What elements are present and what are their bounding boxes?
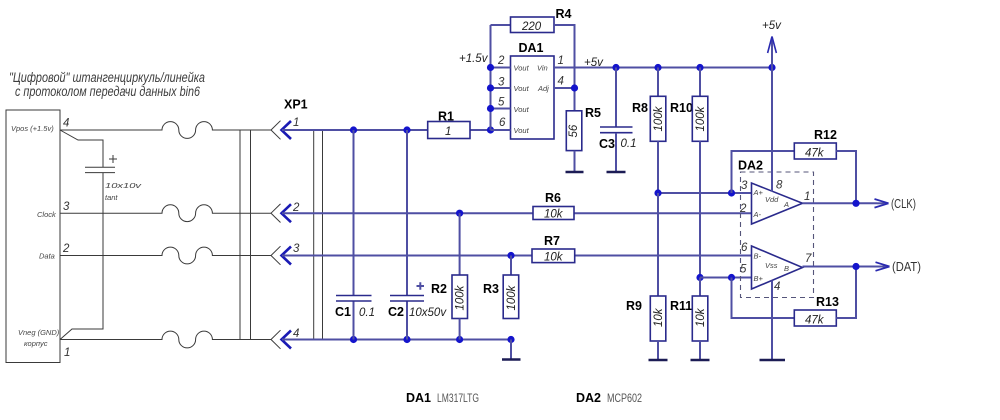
svg-text:100k: 100k (653, 105, 665, 131)
svg-text:R13: R13 (816, 295, 839, 309)
svg-text:3: 3 (293, 243, 300, 255)
svg-text:+1.5v: +1.5v (459, 53, 489, 65)
XP1 socket chevron pin 1 (271, 121, 281, 140)
wire R4 left connection (491, 24, 511, 26)
svg-text:R4: R4 (556, 7, 572, 21)
resistor R12 body (794, 143, 836, 159)
svg-text:6: 6 (499, 117, 506, 129)
svg-text:4: 4 (63, 118, 69, 130)
svg-text:0.1: 0.1 (621, 138, 637, 150)
wire DA1 left rail pins 2 3 5 6 (491, 25, 511, 130)
svg-text:4: 4 (558, 76, 564, 88)
wire R8 bottom to divider node (657, 141, 659, 193)
svg-text:4: 4 (293, 328, 299, 340)
node +5v C3 (612, 64, 619, 71)
svg-text:220: 220 (521, 21, 542, 33)
svg-text:Vneg (GND): Vneg (GND) (18, 328, 60, 337)
node row1 DA1 rail tap (487, 126, 494, 133)
svg-text:10k: 10k (695, 307, 707, 327)
svg-text:1: 1 (804, 191, 810, 203)
wire R8R9 vertical through (657, 193, 659, 296)
wire R10 bottom to divider node (699, 141, 701, 277)
svg-text:Vout: Vout (514, 126, 530, 135)
svg-text:+5v: +5v (762, 20, 782, 32)
arrow output CLK (877, 202, 889, 204)
DA2 dashed box (741, 172, 814, 298)
svg-text:(DAT): (DAT) (892, 260, 921, 274)
svg-text:0.1: 0.1 (359, 307, 375, 319)
resistor R8 body (650, 96, 666, 141)
svg-text:LM317LTG: LM317LTG (437, 391, 479, 405)
svg-text:R6: R6 (545, 191, 561, 205)
wire R4 right connection to pin4 and R5 (554, 25, 575, 111)
wire B+ threshold line (700, 277, 752, 279)
svg-text:Vdd: Vdd (765, 195, 779, 204)
svg-text:10k: 10k (544, 252, 564, 264)
resistor R5 body (566, 111, 582, 151)
node rail C1 (350, 336, 357, 343)
ground bar under pin4 (760, 359, 786, 362)
XP1 plug arrow pin 2 (282, 204, 292, 222)
XP1 plug arrow pin 3 (282, 247, 292, 265)
tantalum capacitor 10x10v plates (85, 167, 115, 172)
resistor R11 body (692, 296, 708, 341)
svg-text:Adj: Adj (537, 84, 549, 93)
node rail R2 (456, 336, 463, 343)
svg-text:"Цифровой" штангенциркуль/лине: "Цифровой" штангенциркуль/линейка (9, 70, 205, 85)
svg-text:R3: R3 (483, 282, 499, 296)
XP1 socket chevron pin 4 (271, 330, 281, 349)
wire R12 left connection (732, 151, 795, 193)
XP1 plug arrow pin 1 (282, 121, 292, 139)
node DA1 pin3 (487, 84, 494, 91)
tantalum capacitor plus sign (109, 155, 117, 163)
node B+ feedback tap (728, 274, 735, 281)
svg-text:2: 2 (739, 203, 747, 215)
svg-text:корпус: корпус (24, 339, 48, 348)
svg-text:B: B (784, 264, 789, 273)
node row1 C2 tap (403, 126, 410, 133)
svg-text:B-: B- (754, 252, 762, 261)
svg-text:1: 1 (64, 347, 70, 359)
cable sheath mark left pair (240, 130, 251, 340)
wire C1 vertical (353, 130, 355, 340)
wire row4 GND rail (282, 339, 511, 341)
node A+ feedback tap (728, 189, 735, 196)
resistor R6 body (533, 207, 574, 220)
capacitor C3 plates (600, 127, 633, 133)
wire R2 vertical bottom (459, 319, 461, 340)
node A+ R8R9 (654, 189, 661, 196)
wire tantalum cap branch top (60, 130, 103, 167)
node DA1 pin4 (571, 84, 578, 91)
resistor R9 body (650, 296, 666, 341)
op-amp U1A triangle (752, 183, 803, 224)
svg-text:A+: A+ (753, 188, 764, 197)
svg-text:(CLK): (CLK) (891, 197, 916, 211)
wire R5 ground stub (574, 151, 576, 171)
svg-text:R9: R9 (626, 299, 642, 313)
resistor R2 body (452, 275, 468, 319)
wire Vneg row with cable squiggle (60, 331, 271, 348)
DA1 regulator box (511, 56, 555, 139)
wire C2 vertical (406, 130, 408, 340)
svg-text:C1: C1 (335, 305, 351, 319)
node rail C2 (403, 336, 410, 343)
svg-text:tant: tant (105, 193, 118, 202)
svg-text:1: 1 (558, 55, 564, 67)
wire R8 vertical top (657, 68, 659, 97)
svg-text:8: 8 (776, 180, 783, 192)
svg-text:10k: 10k (653, 307, 665, 327)
svg-text:5: 5 (498, 97, 505, 109)
wire C3 vertical bottom (615, 133, 617, 171)
svg-text:2: 2 (62, 243, 70, 255)
svg-text:7: 7 (805, 253, 812, 265)
wire R2 vertical top (459, 213, 461, 275)
node DA1 pin5 (487, 105, 494, 112)
XP1 socket chevron pin 2 (271, 204, 281, 223)
ground bar under R3 (502, 358, 521, 361)
svg-text:R7: R7 (544, 234, 560, 248)
node row2 R2 tap (456, 210, 463, 217)
node +5v R10 (696, 64, 703, 71)
ground bar under R11 (691, 359, 710, 362)
wire R3 ground stub (510, 340, 512, 359)
wire row1 +1.5v from XP1 to R1 (282, 129, 428, 131)
wire row3 Data from XP1 to R7 (282, 255, 532, 257)
svg-text:R11: R11 (670, 299, 692, 313)
svg-text:Vin: Vin (537, 64, 548, 73)
wire Vdd pin8 vertical (771, 68, 773, 192)
wire Data row with cable squiggle (60, 247, 271, 264)
svg-text:Vout: Vout (514, 105, 530, 114)
svg-text:3: 3 (498, 77, 505, 89)
svg-text:A-: A- (753, 210, 762, 219)
node DA1 pin2 (487, 64, 494, 71)
wire C3 vertical top (615, 68, 617, 127)
svg-text:Vss: Vss (765, 261, 778, 270)
svg-text:B+: B+ (754, 274, 764, 283)
wire Vpos row with cable squiggle (60, 122, 271, 139)
svg-text:2: 2 (497, 55, 505, 67)
XP1 plug arrow pin 4 (282, 331, 292, 349)
wire R10R11 vertical through (699, 278, 701, 297)
svg-text:Vpos (+1.5v): Vpos (+1.5v) (11, 124, 54, 133)
node row3 R3 tap (507, 252, 514, 259)
svg-text:10x10v: 10x10v (105, 181, 143, 190)
node B+ R10R11 (696, 274, 703, 281)
svg-text:DA2: DA2 (576, 391, 601, 405)
svg-text:Data: Data (39, 252, 55, 261)
svg-text:100k: 100k (695, 105, 707, 131)
wire R11 ground stub (699, 341, 701, 359)
node row1 C1 tap (350, 126, 357, 133)
op-amp U1B triangle (752, 246, 803, 289)
svg-text:4: 4 (774, 281, 780, 293)
wire R12 right connection (836, 151, 856, 203)
wire tantalum cap branch bottom (60, 173, 103, 340)
capacitor C2 plates (390, 296, 424, 302)
svg-text:Vout: Vout (514, 64, 530, 73)
arrow output DAT (877, 266, 890, 268)
resistor R7 body (532, 249, 575, 263)
wire row2 R6 to opamp A- (574, 212, 752, 214)
svg-text:DA1: DA1 (406, 391, 431, 405)
resistor R3 body (503, 275, 519, 319)
wire R10 vertical top (699, 68, 701, 97)
svg-text:XP1: XP1 (284, 98, 308, 112)
svg-text:DA1: DA1 (519, 41, 544, 55)
svg-text:3: 3 (741, 180, 748, 192)
wire Clock row with cable squiggle (60, 205, 271, 222)
svg-text:C2: C2 (388, 305, 404, 319)
node +5v arrow tap (768, 64, 775, 71)
resistor R10 body (692, 96, 708, 141)
resistor R13 body (794, 310, 836, 326)
svg-text:с протоколом передачи данных b: с протоколом передачи данных bin6 (15, 84, 200, 99)
svg-text:R8: R8 (632, 101, 648, 115)
svg-text:1: 1 (293, 117, 299, 129)
svg-text:10x50v: 10x50v (409, 307, 447, 319)
resistor R4 body (511, 17, 555, 33)
wire row2 Clock from XP1 to R6 (282, 212, 533, 214)
svg-text:1: 1 (445, 126, 451, 138)
wire R9 ground stub (657, 341, 659, 359)
resistor R1 body (428, 122, 470, 139)
svg-text:Clock: Clock (37, 210, 57, 219)
ground bar under C3 (607, 171, 626, 174)
ground bar under R9 (649, 359, 668, 362)
svg-text:Vout: Vout (514, 84, 530, 93)
svg-text:R12: R12 (814, 128, 837, 142)
svg-text:R10: R10 (670, 101, 693, 115)
C2 plus sign (417, 282, 425, 289)
wire output2 DAT (803, 266, 878, 268)
wire Vss pin4 vertical (771, 281, 773, 360)
svg-text:C3: C3 (599, 137, 615, 151)
svg-text:56: 56 (568, 124, 580, 137)
wire row1 R1 to DA1 pin6 (470, 129, 511, 131)
svg-text:47k: 47k (805, 148, 825, 160)
+5v supply arrow (771, 37, 773, 68)
svg-text:A: A (783, 200, 789, 209)
svg-text:R2: R2 (431, 282, 447, 296)
svg-text:DA2: DA2 (738, 159, 763, 173)
ground bar under R5 (566, 171, 584, 174)
wire R3 vertical top (510, 256, 512, 276)
wire row3 R7 to opamp B- (575, 255, 752, 257)
XP1 socket chevron pin 3 (271, 246, 281, 265)
svg-text:MCP602: MCP602 (607, 391, 642, 405)
wire R13 left connection (732, 278, 795, 319)
wire A+ threshold line (658, 192, 752, 194)
svg-text:3: 3 (63, 201, 70, 213)
svg-text:R5: R5 (585, 106, 601, 120)
svg-text:10k: 10k (544, 209, 564, 221)
node +5v R8 (654, 64, 661, 71)
wire +5v rail (554, 67, 772, 69)
capacitor C1 plates (336, 296, 372, 302)
svg-text:47k: 47k (805, 315, 825, 327)
node rail R3-ground (507, 336, 514, 343)
wire output1 CLK (803, 202, 878, 204)
node output2 (852, 263, 859, 270)
svg-text:5: 5 (740, 264, 747, 276)
node output1 (852, 200, 859, 207)
svg-text:6: 6 (741, 242, 748, 254)
svg-text:100k: 100k (455, 284, 467, 310)
svg-text:100k: 100k (506, 284, 518, 310)
cable sheath mark right pair (314, 130, 323, 340)
caliper device box (6, 110, 60, 363)
wire R13 right connection (836, 267, 856, 319)
